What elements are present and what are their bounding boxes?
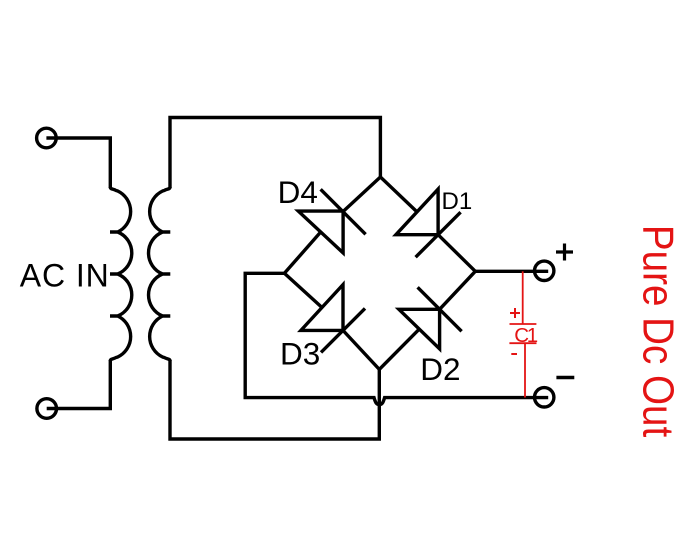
transformer primary winding (left) [110, 187, 132, 361]
minus sign label at DC minus terminal [556, 376, 574, 379]
svg-text:AC IN: AC IN [20, 257, 110, 293]
D4 cathode bar [321, 189, 366, 234]
wire left vertex to D3 anode [284, 273, 322, 307]
D2 cathode bar [418, 287, 462, 331]
svg-text:Pure Dc Out: Pure Dc Out [634, 225, 683, 438]
D2 triangle [399, 309, 440, 349]
svg-text:D2: D2 [420, 351, 460, 387]
terminal DC plus [535, 261, 554, 280]
svg-text:C1: C1 [514, 324, 538, 347]
diode D3 (bottom-left arm, cathode to bottom vertex) [284, 273, 379, 369]
wire top vertex to D4 cathode [343, 177, 380, 212]
wire from primary bottom to bottom-left terminal [47, 360, 111, 409]
wire top vertex to D1 anode [380, 177, 417, 212]
transformer secondary winding (right) [149, 187, 171, 361]
C1 polarity minus mark [511, 353, 517, 355]
D1 triangle [396, 189, 438, 235]
wire D3 cathode to bottom vertex [343, 330, 379, 369]
C1 bottom plate [509, 342, 536, 344]
wire D2 cathode to right vertex [440, 271, 476, 309]
D3 cathode bar [321, 308, 365, 352]
terminal AC top-left [37, 128, 57, 148]
wire secondary top to bridge top vertex [170, 118, 380, 189]
C1 top lead [522, 271, 524, 324]
C1 polarity plus mark [510, 308, 520, 318]
diode D2 (bottom-right arm, cathode to right vertex) [379, 271, 475, 369]
C1 bottom lead [524, 343, 526, 397]
wire left vertex to minus terminal with hop over secondary wire [245, 273, 548, 404]
wire right vertex to plus terminal [475, 270, 548, 273]
diode D1 (top-right arm, cathode to right vertex) [380, 177, 475, 271]
wire D4 anode to left vertex [284, 232, 320, 273]
D4 triangle [298, 211, 343, 253]
wire bottom vertex to D2 anode [379, 329, 419, 369]
plus sign label at DC plus terminal [556, 244, 573, 261]
terminal DC minus [535, 388, 554, 407]
capacitor C1 (red, polarized) [509, 271, 536, 397]
terminal AC bottom-left [37, 399, 57, 419]
svg-text:D1: D1 [442, 188, 473, 215]
wire D1 cathode to right vertex [438, 235, 475, 272]
D3 triangle [301, 285, 343, 331]
svg-text:D4: D4 [278, 174, 318, 210]
wire from top-left terminal to transformer primary top [46, 138, 110, 188]
C1 top plate [510, 323, 537, 325]
diode D4 (top-left arm, cathode to top vertex) [284, 177, 380, 273]
D1 cathode bar [416, 212, 461, 257]
wire secondary bottom to bridge bottom vertex [170, 360, 379, 439]
svg-text:D3: D3 [280, 336, 320, 372]
